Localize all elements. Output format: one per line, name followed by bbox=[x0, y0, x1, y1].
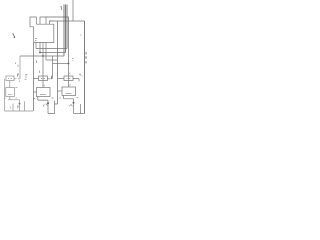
middle riser x52.5 bbox=[52, 56, 54, 79]
K3 internal mark bbox=[66, 93, 72, 95]
IC pin x43 long drop to middle block bbox=[42, 43, 44, 88]
R3 label 26 bbox=[79, 74, 83, 76]
relay K1 box bbox=[6, 88, 15, 97]
contact tick S1 bbox=[16, 74, 18, 77]
Q3 junction blob bbox=[73, 102, 75, 104]
left block label 30 bbox=[17, 106, 19, 109]
FIG label bbox=[85, 52, 87, 63]
wire loop L3 stub on IC top-right bbox=[50, 21, 54, 24]
K2 internal mark bbox=[40, 94, 46, 96]
R3 internal marks bbox=[67, 78, 71, 80]
IC pin x46 bbox=[45, 43, 47, 61]
Q1 junction blob bbox=[19, 103, 21, 105]
R2 right wire bbox=[48, 78, 53, 80]
K2 labels bbox=[34, 97, 54, 100]
wire A from IC pin to bus bbox=[46, 17, 69, 64]
relay K3 box bbox=[62, 87, 76, 96]
R3 right wire bbox=[73, 78, 79, 80]
right block bottom rail bbox=[74, 113, 85, 115]
K3 labels bbox=[60, 97, 79, 100]
wire from top edge x73 bbox=[72, 0, 74, 21]
wire H3 y56 bbox=[20, 55, 64, 57]
bus line 1 bbox=[63, 5, 65, 57]
transistor Q2 bbox=[47, 100, 49, 113]
IC pin x40 bbox=[39, 43, 41, 53]
R1 right wire bbox=[14, 78, 20, 80]
wire B drop x57.5 bbox=[57, 21, 59, 104]
Q1 emitter marks bbox=[10, 106, 19, 109]
load M3 left edge bbox=[80, 104, 82, 114]
Q2 junction blob bbox=[47, 102, 49, 104]
R3 right stub bbox=[78, 79, 80, 82]
wire H5 y63.5 bbox=[53, 63, 69, 65]
bus line 3 bbox=[66, 5, 68, 49]
transistor Q1 bbox=[19, 100, 21, 111]
label 20 bracket bbox=[25, 75, 28, 80]
R3 left wire bbox=[58, 78, 65, 80]
IC U1 box (top-left notch) bbox=[34, 24, 54, 42]
bus label 12 bbox=[61, 7, 62, 11]
load M1 left side bbox=[12, 104, 14, 112]
wire H4 y60 bbox=[46, 59, 58, 61]
transistor Q3 bbox=[73, 99, 75, 114]
resistor R2 box bbox=[39, 76, 48, 81]
junction dot pin x40 / H2 bbox=[39, 52, 41, 54]
middle collector wire bbox=[38, 97, 48, 101]
Q3 emitter marks bbox=[70, 105, 73, 107]
contact tick S2 bbox=[51, 76, 53, 79]
K2 left wire bbox=[33, 91, 37, 93]
junction dot wire A / H5 bbox=[68, 63, 70, 65]
label mark under wire bbox=[19, 81, 21, 83]
K3 left wire bbox=[58, 90, 63, 92]
R1 internal marks bbox=[8, 78, 12, 80]
IC left edge drop / middle block left rail bbox=[32, 43, 34, 112]
resistor R1 box bbox=[6, 76, 14, 81]
left block riser x20 bbox=[19, 56, 21, 79]
K1 labels bbox=[4, 88, 18, 99]
relay K2 box bbox=[37, 88, 51, 97]
resistor R3 box bbox=[64, 76, 73, 81]
tick above K3 bbox=[69, 84, 71, 86]
left block aux vertical bbox=[24, 101, 26, 111]
wire right drop x84.5 bbox=[84, 21, 86, 114]
reference numeral 10 leader arrow bbox=[13, 33, 15, 37]
K1 internal mark bbox=[8, 94, 13, 96]
wire loop L2 tab on IC top bbox=[40, 17, 46, 24]
bus line 2 bbox=[65, 5, 67, 53]
label 16 dot bbox=[80, 34, 81, 36]
junction dot pin x43 / H3 bbox=[42, 55, 44, 57]
right collector wire bbox=[64, 96, 74, 99]
left block bottom rail bbox=[5, 110, 33, 112]
tick above K2 bbox=[43, 85, 45, 87]
right block center drop is wire A continuation bbox=[68, 64, 70, 88]
wire loop L1 tab on IC top-left bbox=[30, 17, 36, 27]
left block center link bbox=[9, 81, 11, 88]
R2 internal marks bbox=[41, 78, 45, 80]
R2 label 24 bbox=[39, 71, 41, 74]
wire H2 y52.5 bbox=[40, 52, 66, 54]
left block collector wire bbox=[8, 97, 20, 100]
label 14 below H3 bbox=[16, 61, 37, 65]
tick above R3 bbox=[69, 73, 71, 74]
load M2 bbox=[48, 101, 58, 114]
IC pin stub x36 bbox=[35, 43, 37, 49]
wire B horizontal y21 bbox=[50, 20, 85, 22]
R2 left wire bbox=[33, 78, 39, 80]
left block left rail bbox=[4, 79, 6, 111]
label 34 bbox=[72, 59, 74, 61]
wire H1 y48.5 bbox=[36, 48, 67, 50]
IC U1 internal label bbox=[35, 39, 37, 41]
R1 label 22 bbox=[17, 65, 20, 76]
Q2 emitter marks bbox=[43, 104, 47, 107]
